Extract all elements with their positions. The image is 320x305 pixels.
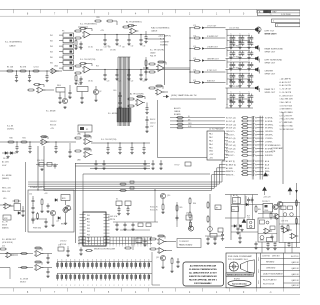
harness wire row 15: [226, 166, 270, 169]
svg-text:1 OF 2000: 1 OF 2000: [281, 14, 291, 16]
svg-text:47: 47: [250, 64, 252, 66]
svg-text:Q11: Q11: [186, 213, 189, 215]
value labels mid row: [96, 50, 117, 52]
speaker output block LEFT SURROUND: [226, 56, 260, 70]
net labels centre column: [150, 50, 164, 58]
svg-text:SUB SPK-: SUB SPK-: [265, 155, 273, 157]
harness wire row 8: [226, 140, 273, 143]
speaker output block LEFT TILT: [226, 27, 260, 49]
svg-text:REG: REG: [57, 85, 61, 87]
transistor Q30 near revision block: [256, 27, 278, 36]
microcontroller U20: [80, 212, 110, 246]
svg-text:P.AL 7H: P.AL 7H: [150, 55, 157, 58]
revision row 2: [272, 19, 301, 23]
capacitor C76: [176, 258, 179, 268]
svg-text:E - CEN CH OUT: E - CEN CH OUT: [280, 95, 293, 97]
svg-text:QA51 08: QA51 08: [291, 273, 298, 276]
svg-text:SL SPKR-: SL SPKR-: [265, 121, 273, 123]
wire vertical rail left of MCU: [75, 163, 77, 243]
svg-text:AL 7H OUT(7H): AL 7H OUT(7H): [130, 93, 144, 96]
svg-text:P06: P06: [87, 234, 90, 236]
capacitor C46: [118, 142, 121, 154]
svg-text:5% UNLESS OTHERWISE NOTED.: 5% UNLESS OTHERWISE NOTED.: [189, 269, 218, 271]
svg-text:S.L. 7H OUT(7H): S.L. 7H OUT(7H): [101, 139, 117, 141]
op-amp U8B stage: [74, 148, 92, 162]
op-amp U7 stage: [127, 93, 145, 108]
wire bottom right junction: [225, 238, 300, 253]
svg-text:C8 1U: C8 1U: [88, 81, 94, 83]
label mode text: [46, 111, 56, 113]
relay driver box RY2: [175, 162, 192, 167]
svg-text:2. ALL CAP UF: 2. ALL CAP UF: [280, 101, 291, 104]
bundle left extension: [28, 182, 44, 186]
svg-text:IN1: IN1: [50, 35, 53, 37]
misc value labels C: [150, 119, 156, 128]
svg-text:K1: K1: [86, 129, 88, 131]
svg-text:C12: C12: [131, 46, 134, 48]
svg-text:4.7K: 4.7K: [193, 25, 196, 27]
svg-text:S.L. MODE: S.L. MODE: [108, 113, 118, 115]
harness wire row 13: [226, 160, 270, 163]
svg-text:R1 10K: R1 10K: [7, 67, 14, 69]
svg-text:SPKR OUT: SPKR OUT: [265, 92, 276, 94]
svg-text:SPKR OUT: SPKR OUT: [265, 52, 276, 54]
svg-text:S.L. 7H: S.L. 7H: [2, 222, 8, 224]
capacitor C12: [127, 34, 130, 46]
svg-text:RI-ST 813 08: RI-ST 813 08: [263, 283, 274, 285]
mcu fanout tick labels: [79, 246, 151, 248]
svg-text:ALL RESISTORS IN OHMS 1/4W: ALL RESISTORS IN OHMS 1/4W: [190, 265, 217, 268]
svg-text:C201 47U R201: C201 47U R201: [229, 27, 240, 29]
svg-text:47: 47: [250, 96, 252, 98]
svg-text:C52: C52: [29, 194, 32, 196]
svg-text:MICROCONTROLLER: MICROCONTROLLER: [94, 249, 116, 251]
svg-text:SR SPKR+: SR SPKR+: [265, 124, 273, 126]
wire mix output: [91, 139, 150, 143]
harness connector boundary: [260, 116, 262, 180]
transistor Q2: [93, 86, 101, 102]
svg-text:U13: U13: [2, 246, 5, 248]
svg-text:R2 47K: R2 47K: [20, 67, 27, 69]
harness wire row 12: [226, 154, 273, 157]
fanout row value labels: [193, 25, 196, 82]
svg-text:CABLE: CABLE: [150, 52, 156, 55]
svg-text:R31: R31: [22, 138, 25, 140]
svg-text:9. SHLD TO GND: 9. SHLD TO GND: [280, 125, 294, 127]
svg-text:S.L. 7H OUT(7H): S.L. 7H OUT(7H): [150, 50, 164, 52]
svg-text:PC8 / SCHEMATIC SH 1: PC8 / SCHEMATIC SH 1: [228, 258, 248, 261]
title block field REVISED: [266, 261, 275, 263]
svg-text:AC HOT (1): AC HOT (1): [226, 160, 235, 163]
svg-text:X1: X1: [116, 199, 118, 201]
svg-text:4.7K: 4.7K: [193, 58, 196, 60]
svg-text:S.L. IN (STEREO): S.L. IN (STEREO): [5, 42, 22, 44]
svg-text:S.L. MODE OUT: S.L. MODE OUT: [2, 239, 17, 241]
svg-text:1. ALL RES 1/4W: 1. ALL RES 1/4W: [280, 98, 293, 101]
svg-text:47: 47: [250, 101, 252, 103]
svg-text:SR SPKR-: SR SPKR-: [265, 128, 273, 130]
svg-text:SR OUT +(4): SR OUT +(4): [226, 124, 236, 126]
svg-text:QA51 08: QA51 08: [291, 261, 298, 264]
svg-text:SWITCH: SWITCH: [108, 219, 116, 221]
svg-text:VR2: VR2: [4, 218, 8, 220]
svg-text:C40: C40: [113, 90, 116, 92]
svg-text:7. NC = NO CONN: 7. NC = NO CONN: [280, 119, 295, 121]
op-amp U2A stage: [74, 24, 97, 50]
label J2: [209, 128, 224, 131]
svg-text:R8 47K: R8 47K: [76, 81, 83, 83]
harness wire row 11: [226, 150, 273, 153]
capacitor C31: [15, 141, 18, 153]
svg-text:P07: P07: [87, 238, 90, 240]
capacitor C1: [15, 70, 18, 82]
svg-text:8. * = MATCHED: 8. * = MATCHED: [280, 121, 293, 124]
svg-text:harman/kardon: harman/kardon: [232, 283, 248, 286]
svg-text:CENTER: CENTER: [265, 71, 274, 73]
amp module left interior detail: [258, 220, 277, 242]
svg-text:QA51 08: QA51 08: [291, 267, 298, 270]
capacitor C42 column: [145, 116, 148, 133]
title block field CUST NO: [262, 256, 280, 258]
warning triangle W1: [262, 187, 267, 195]
svg-text:C22: C22: [131, 81, 134, 83]
diode D11: [240, 225, 244, 232]
svg-text:BR1: BR1: [62, 198, 66, 200]
bus series resistors: [119, 181, 134, 191]
svg-text:R23: R23: [96, 66, 99, 68]
svg-text:R65: R65: [180, 207, 183, 209]
wire U2A output: [92, 34, 165, 36]
label CENTER SPKR OUT: [265, 71, 276, 76]
transistor Q21: [277, 201, 282, 210]
svg-text:P01: P01: [87, 218, 90, 220]
title block brace marks: [258, 257, 260, 284]
svg-text:P03: P03: [87, 225, 90, 227]
svg-text:P04: P04: [87, 228, 90, 230]
svg-text:QA51 08: QA51 08: [291, 279, 298, 282]
value labels stage 1: [76, 30, 105, 49]
svg-text:PANEL BOARD: PANEL BOARD: [179, 244, 193, 247]
capacitor C33: [54, 141, 57, 153]
svg-text:SH 27-51: SH 27-51: [291, 256, 299, 258]
capacitor C21: [115, 69, 118, 81]
amp module box left: [258, 218, 277, 242]
op-amp U16A: [282, 227, 293, 233]
capacitor C23: [139, 69, 142, 81]
transistor Q20: [273, 204, 278, 209]
label microcontroller: [108, 216, 118, 221]
svg-text:S.L. MODE: S.L. MODE: [20, 279, 28, 281]
title block value column: [291, 256, 299, 287]
svg-text:R5 47K: R5 47K: [76, 47, 83, 49]
svg-text:AC 120V: AC 120V: [2, 161, 10, 164]
svg-text:IN4: IN4: [50, 51, 53, 53]
harness wire row 2: [226, 120, 273, 123]
svg-text:R100 4.7K: R100 4.7K: [150, 207, 158, 209]
svg-text:SL OUT -(4): SL OUT -(4): [226, 121, 236, 123]
resistor R25 column: [144, 57, 147, 81]
capacitor C30 pair: [68, 85, 71, 99]
svg-text:REG -15V: REG -15V: [2, 191, 11, 193]
svg-text:47: 47: [232, 43, 234, 45]
svg-text:C5 1U: C5 1U: [88, 47, 94, 49]
op-amp U11A stage: [18, 247, 52, 257]
svg-text:47: 47: [232, 53, 234, 55]
harness wire row 6: [226, 133, 273, 136]
label REAR SURROUND SPKR OUT: [265, 48, 284, 54]
op-amp U6A: [40, 136, 49, 146]
svg-text:RI-15 PCA8 NO: RI-15 PCA8 NO: [263, 279, 277, 282]
wire stub column: [158, 100, 208, 158]
label LEFT SURROUND SPKR OUT: [265, 60, 283, 65]
right power area detail 2: [232, 196, 301, 250]
svg-text:SR OUT -(4): SR OUT -(4): [226, 128, 236, 130]
svg-text:47: 47: [241, 76, 243, 78]
svg-text:10K: 10K: [122, 47, 125, 49]
svg-text:+52V -52V: +52V -52V: [263, 197, 272, 199]
svg-text:S.L. 7H OUT(7H): S.L. 7H OUT(7H): [80, 59, 96, 61]
svg-text:RT OUT -(4): RT OUT -(4): [226, 148, 236, 150]
control bus bundle: [44, 161, 226, 190]
bottom-left aux op-amp: [0, 246, 18, 258]
svg-text:LT SPKR-: LT SPKR-: [265, 141, 273, 143]
svg-text:CABLE: CABLE: [9, 45, 16, 48]
svg-text:Q10: Q10: [167, 195, 170, 197]
sheet border top zone numerals: [27, 12, 272, 15]
arrow connector to cable: [163, 95, 169, 98]
svg-text:+52V: +52V: [44, 193, 48, 195]
pin header row A emphasis: [57, 260, 150, 267]
svg-text:AC-G: AC-G: [265, 167, 270, 170]
pin header row A: [57, 259, 152, 268]
svg-text:RT OUT +(4): RT OUT +(4): [226, 145, 236, 147]
svg-text:C201 47U R201: C201 47U R201: [229, 56, 240, 58]
svg-text:C201 47U R201: C201 47U R201: [229, 67, 240, 69]
capacitor C11: [115, 34, 118, 46]
mcu side parts: [79, 247, 93, 255]
label microcontroller title: [94, 249, 116, 251]
connector J2 block with pin rows: [207, 131, 228, 160]
svg-text:FOR PCB ASSEMBLY.: FOR PCB ASSEMBLY.: [194, 282, 212, 285]
svg-text:CEN OUT +: CEN OUT +: [226, 131, 235, 133]
svg-text:P00: P00: [87, 215, 90, 217]
op-amp U5A stage: [27, 84, 54, 94]
svg-text:F2: F2: [233, 209, 235, 211]
label LEFT TILT SPKR OUT: [265, 31, 276, 36]
speaker block top labels: [229, 27, 240, 88]
op-amp U12B stage: [149, 248, 172, 254]
title block outer frame: [226, 253, 300, 288]
note text 1 AMP IN: [158, 35, 171, 47]
title block part number: [263, 279, 277, 286]
svg-text:6. TP = TEST PT: 6. TP = TEST PT: [280, 115, 293, 117]
svg-text:AC IN: AC IN: [233, 194, 238, 197]
svg-text:A - AL CH OUT: A - AL CH OUT: [280, 81, 291, 84]
svg-text:CEN SPK-: CEN SPK-: [265, 135, 273, 137]
svg-text:L TILT OUT: L TILT OUT: [207, 26, 217, 28]
power box interior extra: [32, 205, 71, 225]
svg-text:SUBSTITUTE COMPONENTS W/O: SUBSTITUTE COMPONENTS W/O: [189, 276, 218, 278]
op-amp U3B stage: [122, 21, 142, 35]
svg-text:C20: C20: [107, 81, 110, 83]
capacitor C32: [28, 141, 31, 153]
mcu fanout bus comb: [78, 237, 152, 245]
svg-text:P.AL OUT(STEREO): P.AL OUT(STEREO): [151, 27, 170, 30]
title block field QUALITY ASSURANCE: [263, 272, 284, 275]
harness right boundary line: [282, 112, 284, 184]
capacitor C49 column: [68, 143, 71, 158]
transistor Q1 buffer: [56, 85, 70, 109]
svg-text:AC NEUT (1): AC NEUT (1): [226, 163, 236, 166]
op-amp U11B stage: [18, 261, 52, 271]
svg-text:SUB OUT -: SUB OUT -: [226, 155, 235, 157]
svg-text:C201 47U R201: C201 47U R201: [229, 45, 240, 47]
crystal X1 cluster: [116, 199, 131, 216]
harman kardon oval logo: [228, 280, 251, 286]
harness wire row 16: [226, 170, 270, 173]
op-amp U17: [260, 228, 272, 239]
fanout row R TILT resistor: [189, 70, 225, 74]
net label MAINS: [2, 175, 12, 180]
capacitor C3: [45, 70, 48, 82]
svg-text:REVISED: REVISED: [266, 261, 275, 263]
svg-text:VSS: VSS: [87, 241, 90, 243]
pin header row B emphasis: [57, 275, 150, 287]
resistor ladder R61: [207, 194, 221, 235]
svg-text:SELECT: SELECT: [20, 282, 26, 284]
svg-text:C - SL CH OUT: C - SL CH OUT: [280, 89, 292, 91]
fanout row CENTER resistor: [189, 58, 225, 62]
harness wire row 10: [226, 147, 273, 150]
harness wire row 9: [226, 144, 273, 147]
net label bottom-left: [2, 239, 17, 244]
svg-text:SPKR OUT: SPKR OUT: [265, 63, 276, 65]
note box: [183, 262, 224, 286]
svg-text:(MAINS): (MAINS): [2, 227, 9, 230]
pin header row B: [57, 274, 152, 281]
revision table header: [258, 10, 301, 16]
svg-text:47: 47: [241, 96, 243, 98]
wire input row: [0, 70, 62, 72]
svg-text:3. DO NOT SUB: 3. DO NOT SUB: [280, 105, 293, 107]
capacitor C40 stack: [113, 90, 122, 109]
svg-text:C2 1U: C2 1U: [33, 67, 39, 69]
svg-text:C11: C11: [119, 46, 122, 48]
svg-text:4. SEE SHEET 2: 4. SEE SHEET 2: [280, 109, 293, 111]
svg-text:47: 47: [250, 76, 252, 78]
relay K1 block: [78, 125, 92, 137]
svg-text:VR1: VR1: [78, 84, 82, 86]
svg-text:P05: P05: [87, 231, 90, 233]
harness stub rows to cable board: [170, 116, 225, 119]
voltage regulator sub-circuit left: [0, 162, 26, 232]
cap value labels row 2: [107, 81, 146, 83]
label power supply: [30, 187, 46, 189]
power box interior detail: [31, 193, 59, 223]
sheet border bottom zone ticks: [14, 288, 284, 292]
svg-text:CABLE: CABLE: [174, 110, 181, 113]
capacitor C71: [46, 268, 49, 278]
diode D1 pair: [2, 152, 16, 160]
svg-text:SPKR OUT: SPKR OUT: [265, 74, 276, 76]
svg-text:R TILT OUT: R TILT OUT: [207, 70, 217, 72]
resistor R50 vertical: [40, 198, 43, 213]
sheet border top rule: [0, 9, 300, 16]
title block field CHECKED: [266, 267, 276, 269]
svg-text:FACTORY APPROVAL. SEE SHT 2: FACTORY APPROVAL. SEE SHT 2: [189, 279, 217, 282]
wire control rows: [75, 164, 150, 169]
svg-text:P02: P02: [87, 222, 90, 224]
svg-text:47: 47: [250, 43, 252, 45]
svg-text:R75 10K: R75 10K: [60, 244, 67, 246]
company name bar: [226, 273, 254, 277]
signal bus extra conductors: [119, 57, 129, 126]
corner RC cluster: [218, 228, 224, 240]
wire driver to distribution: [166, 28, 190, 83]
protection cluster detail: [262, 201, 279, 220]
svg-text:R40 1K: R40 1K: [150, 119, 156, 121]
capacitor C22: [127, 69, 130, 81]
resistor column R65: [176, 202, 183, 227]
svg-text:47: 47: [232, 38, 234, 40]
op-amp U4 driver stage: [143, 61, 166, 73]
svg-text:47: 47: [250, 38, 252, 40]
svg-text:R SURR OUT: R SURR OUT: [207, 36, 219, 38]
svg-text:IN2: IN2: [50, 40, 53, 42]
svg-text:D - SL CH RTN: D - SL CH RTN: [280, 92, 292, 94]
op-amp U16B: [290, 233, 299, 238]
svg-text:D1 D2: D1 D2: [3, 158, 8, 160]
microcontroller U20 pin detail: [83, 212, 106, 246]
capacitor C10: [103, 34, 106, 49]
harness wire row 1: [226, 116, 273, 119]
svg-text:SPKR OUT: SPKR OUT: [265, 34, 276, 36]
sheet border bottom rule: [0, 288, 300, 295]
wire fanout feed: [146, 35, 165, 86]
svg-text:IN3: IN3: [50, 46, 53, 48]
svg-text:AL 7H (STEREO): AL 7H (STEREO): [126, 21, 142, 24]
svg-text:B - AL CH RTN: B - AL CH RTN: [280, 84, 292, 87]
relay K2: [247, 218, 255, 229]
net label SL IN 2: [7, 126, 14, 131]
svg-text:47: 47: [241, 101, 243, 103]
harness wire row 4: [226, 126, 273, 129]
svg-text:LT OUT -(4): LT OUT -(4): [226, 141, 235, 143]
label TO AUDIO POWER AMP PCB: [272, 144, 284, 153]
bottom-left text block: [20, 279, 28, 284]
svg-text:47: 47: [241, 81, 243, 83]
connector J1 pin labels: [50, 35, 53, 65]
svg-text:CUST NO: CUST NO: [262, 256, 271, 258]
svg-text:PA 4: PA 4: [209, 143, 213, 146]
svg-text:4.7K: 4.7K: [193, 35, 196, 37]
title block right grid lines: [261, 258, 301, 283]
fanout row L TILT resistor: [189, 26, 225, 30]
svg-text:R20: R20: [96, 17, 99, 19]
speaker output block REAR TILT: [226, 86, 260, 108]
fanout row L SURR resistor: [189, 46, 225, 50]
svg-text:Q2: Q2: [99, 91, 101, 93]
svg-text:IN5: IN5: [50, 57, 53, 59]
svg-text:AC GND: AC GND: [226, 167, 233, 170]
transistor Q12: [156, 255, 166, 268]
svg-text:47: 47: [232, 81, 234, 83]
capacitor C13: [139, 34, 142, 46]
fanout row R SURR resistor: [189, 36, 225, 40]
svg-text:S.L. 7H (STEREO): S.L. 7H (STEREO): [80, 24, 97, 26]
svg-text:4CH/5.1CH: 4CH/5.1CH: [108, 216, 118, 218]
svg-text:MODE: MODE: [2, 225, 8, 227]
